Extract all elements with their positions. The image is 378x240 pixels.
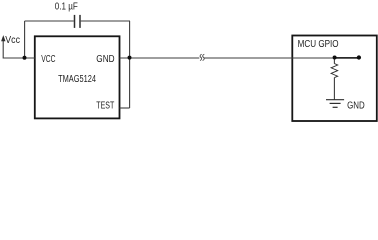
svg-text:GND: GND bbox=[96, 54, 114, 65]
svg-text:TMAG5124: TMAG5124 bbox=[58, 74, 96, 85]
svg-text:TEST: TEST bbox=[96, 101, 114, 112]
svg-text:MCU GPIO: MCU GPIO bbox=[298, 39, 339, 50]
svg-text:GND: GND bbox=[347, 100, 365, 111]
svg-text:Vcc: Vcc bbox=[5, 35, 20, 46]
svg-text:VCC: VCC bbox=[41, 54, 55, 65]
svg-text:0.1 µF: 0.1 µF bbox=[55, 1, 78, 12]
